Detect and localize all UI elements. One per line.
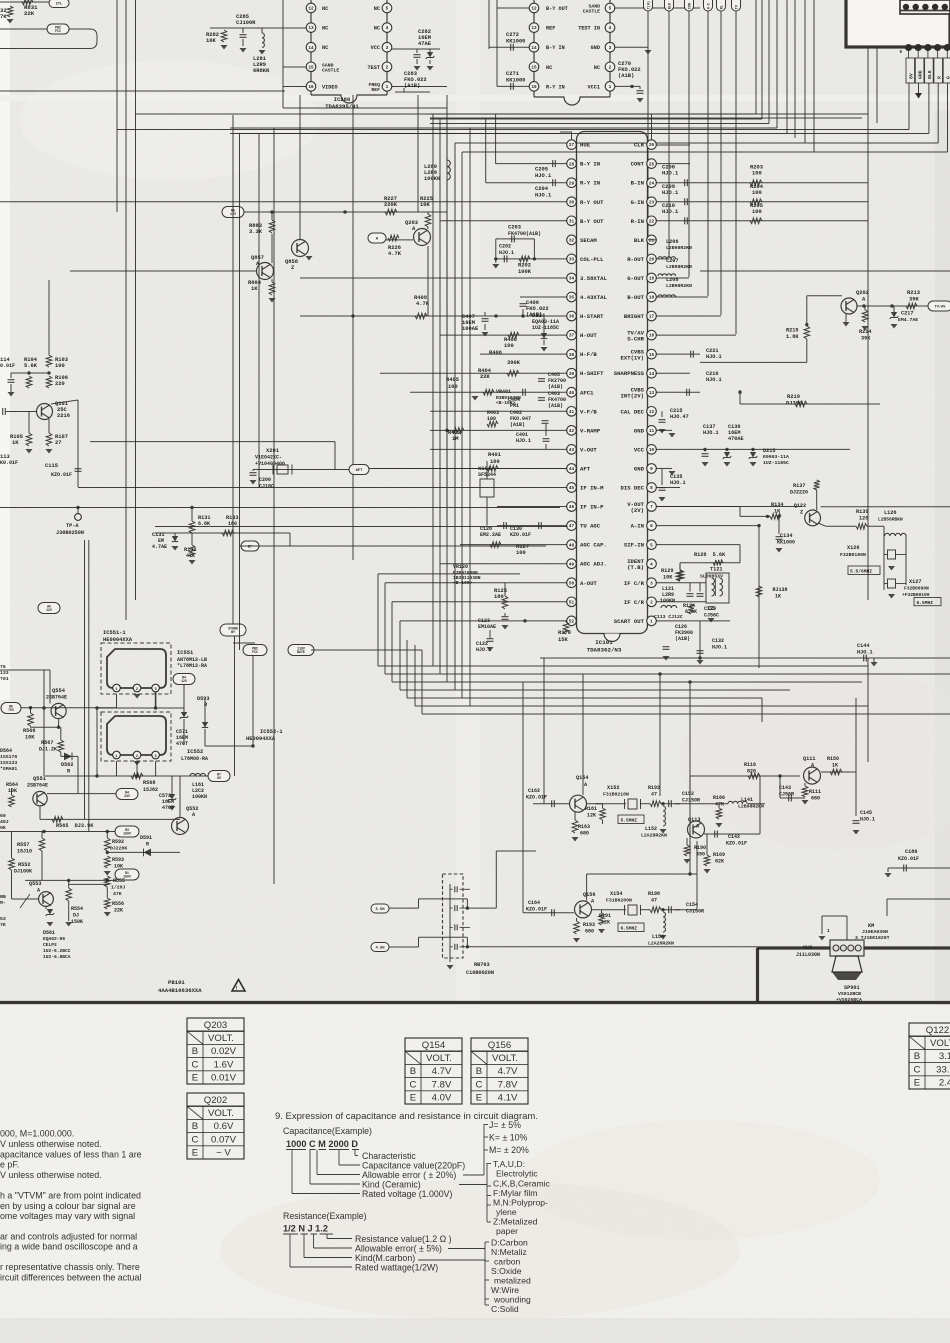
svg-text:C,K,B,Ceramic: C,K,B,Ceramic (493, 1179, 551, 1189)
svg-text:11: 11 (649, 429, 655, 434)
svg-text:HJO.1: HJO.1 (662, 171, 678, 177)
svg-text:22K: 22K (114, 908, 123, 914)
svg-text:36: 36 (569, 315, 575, 320)
svg-text:15: 15 (649, 353, 655, 358)
svg-text:6: 6 (650, 524, 653, 529)
svg-text:en by using a colour bar signa: en by using a colour bar signal are (0, 1201, 136, 1211)
svg-text:R129: R129 (661, 568, 673, 574)
svg-text:metalized: metalized (494, 1276, 531, 1286)
svg-text:14: 14 (649, 372, 655, 377)
svg-text:AFT: AFT (580, 465, 591, 472)
svg-text:R552: R552 (18, 862, 30, 868)
svg-text:5: 5 (386, 7, 389, 12)
svg-text:50: 50 (569, 581, 575, 586)
svg-text:12V: 12V (46, 608, 52, 612)
svg-text:49: 49 (569, 562, 575, 567)
svg-text:Q202: Q202 (856, 290, 869, 296)
svg-text:R161: R161 (585, 806, 597, 812)
svg-text:24V: 24V (124, 794, 130, 798)
svg-text:5.5H: 5.5H (375, 908, 385, 912)
svg-text:apacitance values of less than: apacitance values of less than 1 are (0, 1150, 142, 1160)
svg-text:B-IN: B-IN (631, 180, 644, 187)
svg-text:100AE: 100AE (462, 326, 479, 332)
svg-text:39K: 39K (909, 297, 919, 303)
svg-text:HJO.1: HJO.1 (712, 645, 727, 651)
svg-text:Capacitance value(220pF): Capacitance value(220pF) (362, 1161, 465, 1171)
svg-text:Kind (Ceramic): Kind (Ceramic) (362, 1180, 421, 1190)
svg-text:BY: BY (231, 630, 235, 634)
svg-text:CLR: CLR (634, 142, 645, 149)
svg-text:5.5MHZ: 5.5MHZ (621, 818, 638, 824)
svg-text:26: 26 (649, 143, 655, 148)
svg-text:4: 4 (386, 26, 389, 31)
svg-text:100K: 100K (518, 269, 532, 275)
svg-text:000, M=1.000.000.: 000, M=1.000.000. (0, 1129, 74, 1139)
svg-text:SL0005XV: SL0005XV (700, 574, 723, 580)
svg-text:1: 1 (115, 755, 117, 759)
svg-text:F31B0200N: F31B0200N (606, 898, 632, 904)
svg-text:34: 34 (569, 277, 575, 282)
svg-text:HJO.1: HJO.1 (535, 193, 551, 199)
svg-text:L126: L126 (884, 510, 896, 516)
svg-text:AGC ADJ.: AGC ADJ. (580, 561, 607, 568)
svg-text:ylene: ylene (496, 1207, 517, 1217)
svg-text:1: 1 (609, 85, 612, 90)
svg-text:L208: L208 (666, 277, 678, 283)
svg-text:2216: 2216 (57, 413, 70, 419)
svg-text:16: 16 (308, 85, 314, 90)
svg-text:680: 680 (580, 831, 589, 837)
svg-text:Q554: Q554 (52, 688, 66, 694)
svg-text:IC552: IC552 (187, 749, 203, 755)
svg-text:D:Carbon: D:Carbon (491, 1238, 528, 1248)
svg-text:E: E (914, 1078, 920, 1089)
svg-text:15K: 15K (558, 637, 568, 643)
svg-text:HJO.1: HJO.1 (857, 650, 873, 656)
svg-text:1/2 N J 1.2: 1/2 N J 1.2 (283, 1224, 328, 1234)
svg-text:R557: R557 (17, 842, 29, 848)
svg-text:R401: R401 (488, 452, 501, 458)
svg-text:SP901: SP901 (844, 985, 860, 991)
svg-text:Q551: Q551 (33, 776, 46, 782)
svg-text:KK1000: KK1000 (777, 540, 795, 546)
svg-text:C: C (476, 1079, 483, 1090)
svg-text:SCART OUT: SCART OUT (614, 618, 645, 625)
svg-text:A-IN: A-IN (631, 523, 644, 530)
svg-text:39: 39 (569, 372, 575, 377)
svg-text:37: 37 (569, 334, 575, 339)
svg-text:40: 40 (569, 391, 575, 396)
svg-text:V unless otherwise noted.: V unless otherwise noted. (0, 1170, 102, 1180)
svg-text:17: 17 (649, 315, 655, 320)
svg-text:E: E (192, 1073, 198, 1084)
svg-text:Allowable error( ± 5%): Allowable error( ± 5%) (355, 1244, 442, 1254)
svg-text:IC101: IC101 (595, 639, 613, 646)
svg-text:wounding: wounding (493, 1295, 531, 1305)
svg-text:CASTLE: CASTLE (322, 67, 339, 73)
svg-text:76: 76 (0, 664, 6, 670)
svg-text:C10B0020N: C10B0020N (466, 970, 494, 976)
svg-text:− V: − V (216, 1148, 231, 1159)
svg-text:1: 1 (827, 928, 830, 934)
svg-text:47: 47 (569, 524, 575, 529)
svg-text:28: 28 (569, 162, 575, 167)
svg-text:100: 100 (752, 171, 762, 177)
svg-text:HE0004XXA: HE0004XXA (103, 637, 133, 643)
svg-text:V-F/B: V-F/B (580, 408, 597, 415)
svg-text:6R8KN: 6R8KN (253, 68, 269, 74)
svg-text:IC551-1: IC551-1 (103, 630, 126, 636)
svg-text:R-OUT: R-OUT (627, 256, 644, 263)
svg-text:J= ± 5%: J= ± 5% (489, 1120, 521, 1130)
svg-text:L2B98R2KN: L2B98R2KN (666, 245, 692, 251)
svg-text:8V: 8V (908, 73, 914, 79)
svg-text:V unless otherwise noted.: V unless otherwise noted. (0, 1139, 102, 1149)
svg-text:1.8K: 1.8K (786, 334, 799, 340)
svg-text:B: B (476, 1066, 482, 1077)
svg-text:22K: 22K (480, 374, 490, 380)
svg-text:KWS: KWS (803, 945, 812, 951)
svg-text:44: 44 (569, 467, 575, 472)
svg-text:CELP2: CELP2 (43, 942, 57, 948)
svg-text:HJO.1: HJO.1 (670, 480, 686, 486)
svg-text:21: 21 (649, 238, 655, 243)
svg-text:C205: C205 (535, 167, 548, 173)
svg-text:R215: R215 (786, 328, 798, 334)
svg-text:1U2-6.2BCC: 1U2-6.2BCC (43, 948, 71, 954)
svg-text:H-SHIFT: H-SHIFT (580, 370, 604, 377)
svg-text:KZO.01F: KZO.01F (726, 841, 747, 847)
svg-text:C164: C164 (528, 900, 540, 906)
svg-text:13: 13 (308, 26, 314, 31)
svg-text:IF C/R: IF C/R (624, 599, 645, 606)
svg-text:V-OUT: V-OUT (580, 446, 597, 453)
svg-text:(T.B): (T.B) (627, 564, 644, 571)
svg-text:N:Metaliz: N:Metaliz (491, 1247, 527, 1257)
svg-text:B: B (914, 1051, 920, 1062)
svg-text:13: 13 (531, 26, 537, 31)
svg-text:47: 47 (651, 898, 657, 904)
svg-text:Allowable error ( ± 20%): Allowable error ( ± 20%) (362, 1170, 456, 1180)
svg-text:7K: 7K (0, 13, 7, 20)
svg-text:5.6K: 5.6K (24, 363, 38, 369)
svg-text:C: C (410, 1079, 417, 1090)
svg-text:h a "VTVM" are from point indi: h a "VTVM" are from point indicated (0, 1191, 141, 1201)
svg-text:Rated voltage (1.000V): Rated voltage (1.000V) (362, 1189, 453, 1199)
svg-text:HJO.1: HJO.1 (706, 377, 722, 383)
svg-text:B-Y OUT: B-Y OUT (546, 6, 568, 12)
svg-text:IF IN-P: IF IN-P (580, 504, 604, 511)
svg-text:39K: 39K (861, 336, 871, 342)
svg-text:100: 100 (490, 459, 500, 465)
svg-text:DJ1.2K: DJ1.2K (39, 747, 57, 753)
svg-text:COL-PLL: COL-PLL (580, 256, 604, 263)
svg-text:(A1B): (A1B) (510, 422, 525, 428)
svg-text:100: 100 (55, 363, 65, 369)
svg-text:C: C (192, 1059, 199, 1070)
svg-text:10K: 10K (420, 202, 430, 208)
svg-text:5: 5 (609, 7, 612, 12)
svg-text:43: 43 (569, 448, 575, 453)
svg-text:R-Y IN: R-Y IN (546, 84, 565, 90)
svg-text:R567: R567 (41, 740, 53, 746)
svg-text:R566: R566 (23, 728, 35, 734)
svg-text:SHARPNESS: SHARPNESS (614, 370, 645, 377)
svg-text:SECAM: SECAM (580, 237, 597, 244)
svg-text:(A1B): (A1B) (404, 83, 420, 89)
svg-text:1UZ-1185C: 1UZ-1185C (763, 460, 789, 466)
svg-text:H-F/B: H-F/B (580, 351, 597, 358)
svg-text:KZO.01F: KZO.01F (898, 856, 919, 862)
svg-text:T(H): T(H) (646, 1, 651, 9)
svg-text:M-: M- (0, 900, 6, 906)
svg-text:470AE: 470AE (728, 436, 744, 442)
svg-text:KZO.01F: KZO.01F (526, 795, 547, 801)
svg-text:12K: 12K (587, 813, 596, 819)
svg-text:GND: GND (634, 465, 645, 472)
svg-text:20: 20 (649, 258, 655, 263)
svg-text:9: 9 (650, 467, 653, 472)
svg-text:R213: R213 (907, 290, 920, 296)
svg-text:DJ2220: DJ2220 (790, 490, 808, 496)
svg-text:390K: 390K (507, 360, 521, 366)
svg-text:2.4: 2.4 (939, 1078, 950, 1089)
svg-text:V-RAMP: V-RAMP (580, 427, 601, 434)
svg-text:470T: 470T (176, 741, 188, 747)
svg-text:2: 2 (650, 600, 653, 605)
svg-text:R166: R166 (713, 795, 725, 801)
svg-text:(A1B): (A1B) (548, 384, 563, 390)
svg-text:100: 100 (448, 384, 458, 390)
svg-text:T121: T121 (710, 567, 722, 573)
svg-text:C203: C203 (508, 225, 521, 231)
svg-text:1/20J: 1/20J (111, 885, 126, 891)
svg-text:2SB764E: 2SB764E (27, 783, 48, 789)
svg-text:F31B0210N: F31B0210N (603, 792, 629, 798)
svg-text:D562: D562 (61, 762, 73, 768)
svg-text:DJ: DJ (73, 913, 79, 919)
svg-text:4AA4B10636XXA: 4AA4B10636XXA (158, 987, 202, 994)
svg-text:D561: D561 (43, 930, 55, 936)
svg-text:C204: C204 (535, 186, 549, 192)
svg-text:4.43XTAL: 4.43XTAL (580, 294, 607, 301)
svg-text:X201: X201 (266, 448, 279, 454)
svg-text:C154: C154 (686, 902, 698, 908)
svg-text:VOLT.: VOLT. (492, 1053, 518, 1064)
svg-text:L2B56RBKN: L2B56RBKN (878, 517, 903, 523)
svg-text:IF C/R: IF C/R (624, 580, 645, 587)
svg-text:47AE: 47AE (418, 41, 432, 47)
svg-text:J11L030N: J11L030N (796, 952, 820, 958)
svg-text:R: R (936, 76, 942, 79)
svg-text:*L78M12-RA: *L78M12-RA (177, 663, 207, 669)
svg-text:S:Oxide: S:Oxide (491, 1266, 522, 1276)
svg-text:Z: Z (291, 265, 294, 271)
svg-text:100: 100 (752, 190, 762, 196)
svg-text:RJ138: RJ138 (773, 587, 788, 593)
svg-text:!: ! (235, 986, 238, 992)
svg-text:R193: R193 (583, 922, 595, 928)
svg-text:KM: KM (868, 923, 874, 929)
svg-text:KK1000: KK1000 (506, 39, 525, 45)
svg-text:Characteristic: Characteristic (362, 1151, 416, 1161)
svg-text:22K: 22K (24, 10, 35, 17)
svg-text:5.5/6MHZ: 5.5/6MHZ (850, 569, 872, 575)
svg-text:2: 2 (136, 688, 138, 692)
svg-text:KK1000: KK1000 (506, 78, 525, 84)
svg-text:CAL DEC: CAL DEC (621, 408, 645, 415)
svg-text:?01: ?01 (0, 676, 9, 682)
svg-text:47: 47 (651, 792, 657, 798)
svg-text:HJO.1: HJO.1 (662, 209, 678, 215)
svg-text:220: 220 (55, 381, 65, 387)
svg-text:14: 14 (531, 46, 537, 51)
svg-text:+V10400400: +V10400400 (255, 461, 285, 467)
svg-text:E0603-11A: E0603-11A (763, 454, 789, 460)
svg-text:NC: NC (322, 26, 328, 32)
svg-text:r representative chassis only.: r representative chassis only. There (0, 1262, 140, 1272)
svg-text:120: 120 (859, 516, 868, 522)
svg-text:C134: C134 (780, 533, 792, 539)
svg-text:R219: R219 (787, 394, 800, 400)
svg-text:KZO.01F: KZO.01F (510, 532, 531, 538)
svg-text:FK4700(A1B): FK4700(A1B) (508, 231, 541, 237)
svg-text:Q156: Q156 (488, 1040, 511, 1051)
svg-text:C: C (192, 1134, 199, 1145)
svg-text:R128 5.6K: R128 5.6K (694, 552, 726, 558)
svg-text:35: 35 (569, 296, 575, 301)
svg-text:R139: R139 (856, 509, 868, 515)
svg-text:10: 10 (649, 448, 655, 453)
svg-text:10K: 10K (206, 38, 216, 44)
svg-text:6.8K: 6.8K (198, 521, 210, 527)
svg-text:e pF.: e pF. (0, 1160, 19, 1170)
svg-text:4.7V: 4.7V (432, 1066, 452, 1077)
svg-text:15J82: 15J82 (143, 787, 158, 793)
svg-text:GND: GND (918, 70, 924, 79)
svg-text:B-Y OUT: B-Y OUT (580, 218, 604, 225)
svg-text:15: 15 (308, 65, 314, 70)
svg-text:C200: C200 (259, 477, 271, 483)
svg-text:HJO.1: HJO.1 (535, 173, 551, 179)
svg-text:2SB764E: 2SB764E (46, 695, 67, 701)
svg-text:1K: 1K (832, 763, 838, 769)
svg-text:NC: NC (322, 6, 328, 12)
svg-text:Electrolytic: Electrolytic (496, 1169, 538, 1179)
svg-text:NC: NC (322, 45, 328, 51)
svg-text:CASTLE: CASTLE (583, 9, 600, 15)
svg-text:VOLT.: VOLT. (208, 1033, 234, 1044)
svg-text:EM4.7AE: EM4.7AE (898, 317, 918, 323)
svg-text:L207: L207 (666, 258, 678, 264)
svg-text:680: 680 (585, 929, 594, 935)
svg-text:0.02V: 0.02V (211, 1046, 237, 1057)
svg-text:R-Y IN: R-Y IN (580, 180, 600, 187)
svg-text:VOLT.: VOLT. (208, 1108, 234, 1119)
svg-text:40J: 40J (0, 819, 9, 825)
svg-text:ing a wide band oscilloscope a: ing a wide band oscilloscope and a (0, 1242, 138, 1252)
svg-text:DJ100K: DJ100K (14, 869, 32, 875)
svg-text:Z:Metalized: Z:Metalized (493, 1217, 538, 1227)
svg-text:BRIGHT: BRIGHT (624, 313, 645, 320)
svg-text:TP-A: TP-A (66, 523, 79, 529)
svg-text:J30B0250N: J30B0250N (56, 530, 84, 536)
svg-text:REF: REF (546, 26, 555, 32)
svg-text:J10EA030N: J10EA030N (862, 929, 888, 935)
svg-text:53: 53 (0, 916, 6, 922)
svg-text:FCC: FCC (55, 29, 61, 33)
svg-text:GND: GND (591, 45, 600, 51)
svg-text:30: 30 (569, 200, 575, 205)
svg-text:R554: R554 (71, 906, 83, 912)
svg-text:3: 3 (650, 581, 653, 586)
svg-text:K= ± 10%: K= ± 10% (489, 1133, 528, 1143)
svg-text:R190: R190 (694, 845, 706, 851)
svg-text:4.1V: 4.1V (498, 1093, 518, 1104)
svg-text:12V: 12V (181, 679, 187, 683)
svg-text:4.7AE: 4.7AE (152, 544, 167, 550)
svg-text:0K: 0K (0, 825, 6, 831)
svg-text:31: 31 (569, 219, 575, 224)
svg-text:B: B (192, 1121, 198, 1132)
svg-text:R: R (146, 842, 149, 848)
svg-text:HJO.1: HJO.1 (706, 354, 722, 360)
svg-text:15: 15 (531, 65, 537, 70)
svg-text:R116: R116 (744, 762, 756, 768)
svg-text:L206: L206 (666, 239, 678, 245)
svg-text:42: 42 (569, 429, 575, 434)
svg-text:12: 12 (649, 410, 655, 415)
svg-text:B-Y IN: B-Y IN (546, 45, 565, 51)
svg-text:AFT: AFT (356, 469, 364, 473)
svg-text:Q553: Q553 (29, 881, 41, 887)
svg-text:1: 1 (650, 619, 653, 624)
svg-text:KZO.01F: KZO.01F (526, 907, 547, 913)
svg-text:F32B0090N: F32B0090N (904, 586, 929, 592)
svg-text:1K: 1K (251, 286, 258, 292)
svg-text:100KN: 100KN (192, 794, 207, 800)
svg-text:S-CHR: S-CHR (627, 335, 644, 342)
svg-text:C271: C271 (506, 71, 519, 77)
svg-text:1000 C M 2000 D: 1000 C M 2000 D (286, 1139, 358, 1149)
svg-text:6.5MHZ: 6.5MHZ (917, 600, 934, 606)
svg-text:VCC: VCC (371, 45, 380, 51)
svg-text:R-Y OUT: R-Y OUT (580, 199, 604, 206)
svg-text:C202: C202 (499, 244, 511, 250)
svg-text:IC551: IC551 (177, 650, 193, 656)
svg-text:KZO.01F: KZO.01F (51, 472, 72, 478)
svg-text:Q156: Q156 (583, 892, 595, 898)
svg-text:24: 24 (649, 181, 655, 186)
svg-text:D215: D215 (763, 448, 775, 454)
svg-text:IC552-1: IC552-1 (260, 729, 283, 735)
svg-text:19: 19 (649, 277, 655, 282)
svg-text:X154: X154 (610, 891, 622, 897)
svg-text:A-OUT: A-OUT (580, 580, 597, 587)
svg-text:3.58XTAL: 3.58XTAL (580, 275, 607, 282)
svg-text:Q113: Q113 (688, 817, 700, 823)
svg-text:C115: C115 (45, 463, 58, 469)
svg-text:D591: D591 (140, 835, 152, 841)
svg-text:+VS025BCA: +VS025BCA (836, 997, 862, 1003)
svg-text:Rated wattage(1/2W): Rated wattage(1/2W) (355, 1263, 438, 1273)
svg-text:8: 8 (650, 486, 653, 491)
svg-text:HJO.1: HJO.1 (860, 817, 875, 823)
svg-text:10K: 10K (663, 575, 673, 581)
svg-text:Resistance value(1.2 Ω ): Resistance value(1.2 Ω ) (355, 1234, 452, 1244)
svg-text:X152: X152 (607, 785, 619, 791)
svg-text:0.01F: 0.01F (0, 363, 15, 369)
